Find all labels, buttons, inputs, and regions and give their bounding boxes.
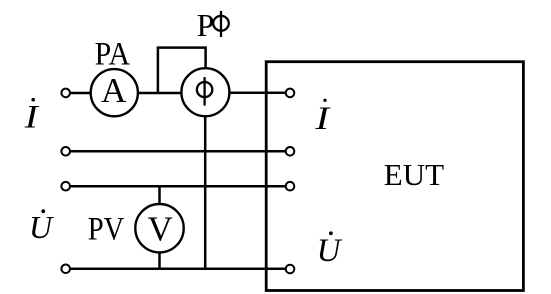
wire vertical from phase meter bottom to bottom rail	[204, 116, 207, 269]
svg-text:A: A	[101, 71, 127, 110]
ammeter PA circle	[91, 69, 138, 116]
dot of I phasor in EUT	[323, 99, 326, 102]
terminal row2 right (EUT)	[286, 147, 295, 156]
terminal row1 left	[61, 89, 70, 98]
meter letter phi drawn	[197, 77, 212, 106]
svg-text:P: P	[197, 7, 215, 43]
wire row1 mid: ammeter to phase meter	[138, 92, 182, 95]
terminal row4 left	[61, 265, 70, 274]
wire row3	[70, 185, 286, 188]
wire voltmeter top stub	[158, 186, 161, 204]
svg-text:EUT: EUT	[384, 157, 444, 192]
label Pphi: phi drawn	[213, 11, 229, 37]
svg-text:V: V	[148, 210, 173, 249]
wire row1 right: phase meter to EUT terminal	[229, 91, 285, 94]
terminal row1 right (EUT)	[286, 89, 295, 98]
terminal row3 right (EUT)	[286, 182, 295, 191]
phase meter Pphi circle	[181, 68, 229, 116]
terminal row4 right (EUT)	[286, 265, 295, 274]
dot of U phasor in EUT	[329, 231, 333, 235]
svg-text:I: I	[24, 100, 41, 136]
dot of I phasor left	[31, 98, 35, 102]
svg-text:PA: PA	[95, 36, 131, 72]
wire loop over phase meter current path	[158, 48, 206, 93]
svg-text:U: U	[29, 209, 54, 245]
terminal row3 left	[61, 182, 70, 191]
wire row4 bottom rail	[70, 268, 286, 271]
voltmeter PV circle	[135, 204, 183, 252]
svg-text:I: I	[314, 101, 331, 137]
terminal row2 left	[61, 147, 70, 156]
wire row1 left: terminal to ammeter	[70, 92, 91, 95]
wire row2	[70, 150, 286, 153]
svg-text:PV: PV	[88, 212, 125, 248]
svg-text:U: U	[317, 233, 343, 269]
dot of U phasor left	[41, 209, 45, 213]
wire voltmeter bottom stub	[158, 252, 161, 268]
EUT box	[266, 62, 523, 291]
